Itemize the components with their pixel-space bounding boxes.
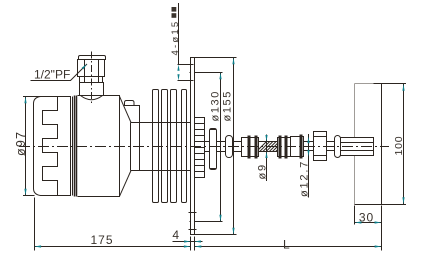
neck C-D xyxy=(304,141,314,143)
arrow 175 right xyxy=(184,245,191,247)
svg-text:ø155: ø155 xyxy=(222,90,234,121)
ext line ø130 bottom xyxy=(190,221,223,223)
svg-text:ø12.7: ø12.7 xyxy=(299,160,311,197)
arrow ø15 bottom xyxy=(177,74,179,80)
cylinder C (ø12.7) xyxy=(291,137,304,157)
hex nut D xyxy=(314,132,327,161)
dim line ø9 xyxy=(266,135,268,182)
arrow ø97 bottom xyxy=(24,189,26,196)
svg-text:1/2"PF: 1/2"PF xyxy=(34,68,70,82)
arrow ø12.7 bottom xyxy=(307,150,309,157)
arrow ø15 top xyxy=(177,65,179,71)
arrow ø130 bottom xyxy=(219,215,221,222)
cap/body joint lines xyxy=(72,97,74,196)
fin 2 xyxy=(162,90,168,203)
svg-text:4-ø15: 4-ø15 xyxy=(170,20,181,56)
plate (gray reference part) left edge xyxy=(354,84,356,205)
cylinder A xyxy=(242,138,259,157)
plate top edge gray part xyxy=(355,83,374,85)
arrow 30 left xyxy=(355,221,362,223)
plate top ext black xyxy=(374,83,407,85)
arrow ø9 top (outside) xyxy=(265,135,267,142)
arrow L left xyxy=(195,245,202,247)
cap grip notches xyxy=(43,97,58,196)
dim line 4 (flange thickness) xyxy=(173,241,203,243)
arrow ø97 top xyxy=(24,97,26,104)
arrow 4 right (outside) xyxy=(195,240,201,242)
cable gland hex body xyxy=(78,60,105,77)
plate right edge xyxy=(381,84,383,205)
housing cap outline xyxy=(34,97,71,196)
fin 1 xyxy=(153,90,159,203)
hatched rod xyxy=(256,141,286,152)
cylinder B xyxy=(278,138,291,157)
ext line 175 left xyxy=(34,198,36,251)
union nut xyxy=(210,129,217,170)
ext line ø155 bottom (flange bottom extended) xyxy=(195,234,237,236)
probe shaft lines left section xyxy=(205,141,242,143)
arrow 175 left xyxy=(35,245,42,247)
arrow L right xyxy=(375,245,382,247)
ext line ø97 top xyxy=(23,96,41,98)
ext line flange left face bottom xyxy=(190,237,192,251)
stadium ring 1 xyxy=(226,136,233,158)
arrow ø130 top xyxy=(219,73,221,80)
arrow 100 top xyxy=(402,84,404,91)
gland boss arc xyxy=(81,96,103,100)
dim line 30 xyxy=(355,222,382,224)
gland neck xyxy=(80,83,104,96)
small tab on box xyxy=(125,101,135,106)
fin 3 xyxy=(171,90,177,203)
centerline gland vertical xyxy=(91,52,93,104)
arrow ø155 bottom xyxy=(232,228,234,235)
stadium ring 2 xyxy=(335,136,341,158)
svg-text:ø130: ø130 xyxy=(210,90,222,121)
neck bottom line xyxy=(131,170,191,172)
arrow 100 bottom xyxy=(402,197,404,204)
svg-text:ø9: ø9 xyxy=(257,163,269,179)
dim line ø12.7 xyxy=(308,134,310,198)
flange hole bottom ticks xyxy=(189,212,197,214)
neck top line xyxy=(131,122,191,124)
cone transition bottom xyxy=(120,171,132,197)
svg-text:175: 175 xyxy=(90,233,113,247)
ext line plate right bottom xyxy=(381,206,383,251)
collar bars A xyxy=(248,136,251,159)
flange xyxy=(191,58,195,235)
centerline horizontal xyxy=(19,146,389,148)
svg-text:30: 30 xyxy=(359,211,374,225)
gland collar xyxy=(80,77,103,83)
dim line 175 xyxy=(35,246,191,248)
dim line ø155 xyxy=(233,58,235,234)
ext line ø155 top (flange top extended) xyxy=(191,57,237,59)
svg-text:ø97: ø97 xyxy=(14,131,28,156)
arrow 30 right xyxy=(375,221,382,223)
arrow ø155 top xyxy=(232,58,234,65)
ext line ø130 top xyxy=(190,72,223,74)
plate bottom edge + ext xyxy=(355,204,407,206)
arrow leader 1/2PF xyxy=(82,64,87,69)
svg-text:100: 100 xyxy=(393,136,405,156)
leader line 1/2"PF xyxy=(31,64,88,81)
cable gland cap xyxy=(79,56,106,60)
neck D-F xyxy=(327,141,335,143)
arrow ø9 bottom (outside) xyxy=(265,152,267,159)
leader 4-ø15 holes xyxy=(178,3,180,64)
threaded boss on flange xyxy=(195,118,205,178)
collar bar C xyxy=(300,135,303,159)
svg-text:4: 4 xyxy=(172,228,179,242)
ext line 30 left xyxy=(354,206,356,225)
fin 4 xyxy=(182,90,187,203)
arrow 4 left (outside) xyxy=(184,240,190,242)
ext line flange right face bottom xyxy=(194,237,196,251)
neck collar joint lines xyxy=(130,123,132,171)
junction box top xyxy=(124,106,140,123)
flange hole top lines xyxy=(178,64,194,66)
arrow ø12.7 top xyxy=(307,137,309,144)
svg-text:L: L xyxy=(283,238,290,252)
ext line ø97 bottom xyxy=(23,195,35,197)
cone transition top xyxy=(120,96,132,122)
label CJK blobs xyxy=(172,7,177,18)
dim line ø97 xyxy=(25,97,27,196)
collar bars B xyxy=(279,136,282,159)
dim line 100 xyxy=(403,84,405,204)
dim line L xyxy=(195,246,382,248)
housing body xyxy=(78,96,120,197)
dim line ø130 xyxy=(220,73,222,221)
end cylinder G xyxy=(341,138,374,156)
